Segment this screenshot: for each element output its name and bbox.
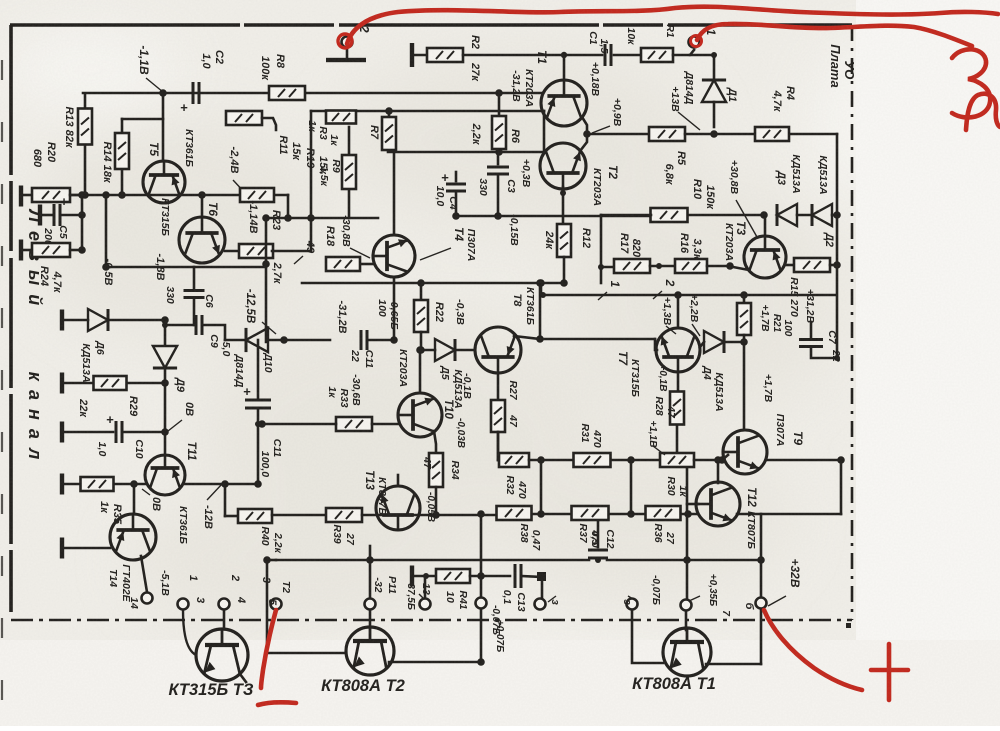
capacitor C9 bbox=[196, 315, 202, 335]
wire y515 a bbox=[272, 514, 326, 517]
wire bbox=[369, 339, 394, 342]
wire T5 collector bbox=[162, 93, 165, 161]
wire bbox=[267, 559, 276, 562]
wire T1 base from C1 row bbox=[563, 55, 566, 80]
capacitor C3 bbox=[487, 167, 509, 174]
wire bbox=[457, 349, 475, 352]
pointer line bbox=[146, 78, 163, 92]
wire R2 row bbox=[414, 54, 428, 57]
wire x687 lower bbox=[686, 514, 689, 560]
pointer line bbox=[628, 596, 638, 602]
wire bbox=[497, 152, 500, 164]
resistor R31 bbox=[574, 453, 611, 467]
junction bbox=[81, 191, 89, 199]
wire bbox=[743, 335, 746, 342]
wire elbow T7 base bbox=[655, 339, 657, 350]
resistor R20 bbox=[32, 188, 70, 202]
wire bbox=[810, 322, 813, 339]
wire bbox=[127, 382, 165, 385]
transistor T7 bbox=[656, 328, 700, 372]
junction bbox=[416, 346, 424, 354]
ground C10 bbox=[60, 422, 64, 443]
junction bbox=[726, 262, 734, 270]
junction bbox=[837, 456, 845, 464]
resistor R11 bbox=[226, 111, 262, 125]
wire bbox=[70, 249, 82, 252]
pointer line bbox=[653, 446, 665, 455]
transistor T9 bbox=[723, 430, 767, 474]
wire R11 right bend bbox=[262, 118, 276, 130]
wire C13 to node bbox=[522, 576, 542, 577]
transistor T12 bbox=[696, 482, 740, 526]
ground R41 row bbox=[410, 566, 414, 587]
wire bbox=[562, 187, 565, 224]
wire x687 to terminal bbox=[686, 560, 689, 599]
wire bbox=[455, 191, 458, 216]
resistor R27 bbox=[491, 400, 505, 432]
capacitor C6 bbox=[184, 291, 205, 298]
resistor R6 bbox=[492, 116, 506, 149]
junction bbox=[495, 89, 503, 97]
resistor R33 bbox=[336, 417, 372, 431]
terminal 13 bbox=[420, 599, 431, 610]
wire bbox=[497, 432, 500, 460]
wire to T9 collector bbox=[743, 342, 746, 428]
wire R33 row - left stub bbox=[336, 423, 372, 426]
wire T3 base bbox=[764, 215, 767, 236]
transistor T11 bbox=[145, 455, 185, 495]
wire to R40 bbox=[224, 484, 227, 516]
diode D6 bbox=[88, 309, 108, 331]
junction bbox=[740, 291, 748, 299]
wire y152 bbox=[388, 151, 545, 154]
junction bbox=[417, 279, 425, 287]
wire bbox=[121, 169, 124, 196]
ground D6 bbox=[60, 310, 64, 331]
junction bbox=[833, 261, 841, 269]
wire bbox=[257, 408, 260, 484]
resistor R30 bbox=[660, 453, 694, 467]
junction bbox=[161, 379, 169, 387]
junction bbox=[262, 214, 270, 222]
pointer line bbox=[168, 420, 182, 431]
terminal 3 left bbox=[535, 599, 546, 610]
wire R7 top bbox=[388, 111, 391, 117]
wire T13 collector stub bbox=[397, 475, 400, 486]
T3 emitter stub bbox=[240, 674, 246, 682]
resistor R7 bbox=[382, 117, 396, 150]
junction bbox=[684, 510, 692, 518]
red ring terminal 2 bbox=[338, 34, 352, 48]
ground R29 bbox=[60, 373, 64, 394]
ground C5 bbox=[38, 205, 42, 226]
wire T12 base stub bbox=[687, 503, 698, 506]
junction bbox=[102, 263, 110, 271]
wire bbox=[836, 134, 839, 358]
wire y134 R5 row bbox=[587, 133, 649, 136]
wire D1 to rail bbox=[713, 102, 716, 127]
junction bbox=[627, 510, 635, 518]
resistor R8 bbox=[269, 86, 305, 100]
terminal 6 +32V bbox=[756, 598, 767, 609]
wire bbox=[193, 267, 196, 288]
junction square bbox=[537, 572, 546, 581]
junction bbox=[540, 292, 546, 298]
wire bbox=[124, 431, 165, 434]
resistor R37 bbox=[572, 506, 609, 520]
wire y111 bbox=[311, 110, 544, 113]
wire bbox=[597, 521, 600, 547]
T2 emitter wire bbox=[389, 662, 481, 664]
diode D9 bbox=[153, 346, 177, 368]
junction bbox=[221, 480, 229, 488]
pointer line bbox=[768, 596, 786, 606]
resistor R3 bbox=[326, 111, 356, 124]
capacitor C12 bbox=[588, 550, 608, 558]
wire bbox=[470, 575, 510, 578]
wire bbox=[121, 119, 124, 133]
red Zp letter p bbox=[966, 94, 1000, 130]
resistor R5 bbox=[649, 127, 685, 141]
wire bbox=[185, 483, 258, 486]
junction bbox=[102, 191, 110, 199]
wire T4 emitter bbox=[393, 277, 396, 340]
wire y295 long bbox=[543, 294, 836, 297]
junction bbox=[595, 557, 601, 563]
wire R28 bottom bbox=[676, 425, 679, 453]
capacitor C2 bbox=[180, 82, 199, 115]
wire R17 row bbox=[600, 266, 614, 269]
junction bbox=[627, 456, 635, 464]
wire to D9 bbox=[164, 320, 167, 344]
resistor R22 bbox=[414, 300, 428, 332]
transistor T10 bbox=[398, 393, 442, 437]
junction bbox=[78, 211, 86, 219]
wire bbox=[64, 431, 113, 434]
junction bbox=[159, 89, 167, 97]
wire T3 collector bbox=[223, 610, 226, 629]
resistor R35 bbox=[81, 477, 114, 491]
scan edge marks bbox=[1, 60, 3, 710]
diode D2 bbox=[812, 204, 832, 226]
wire bbox=[685, 133, 755, 136]
wire bbox=[23, 249, 32, 252]
wire T6 to R23 bbox=[225, 250, 239, 253]
T8 collector wire bbox=[514, 336, 540, 339]
wire x541 mid bbox=[540, 460, 543, 514]
red dash bottom left bbox=[258, 702, 296, 705]
resistor R39 bbox=[326, 508, 362, 522]
resistor R29 bbox=[94, 376, 127, 390]
junction bbox=[710, 130, 718, 138]
input ground bar bbox=[326, 58, 366, 62]
transistor T14 bbox=[110, 514, 156, 560]
junction bbox=[423, 573, 429, 579]
wire to terminal 3a bbox=[541, 580, 544, 598]
wire R1 to terminal 1 bbox=[673, 50, 694, 55]
wire to D1 top bbox=[690, 54, 714, 57]
wire to D5 bbox=[421, 349, 435, 352]
wire y283 bbox=[302, 282, 564, 285]
transistor T1 KT808A bbox=[663, 628, 711, 676]
wire bbox=[743, 295, 746, 303]
resistor R24 bbox=[32, 243, 70, 257]
junction bbox=[477, 510, 485, 518]
wire x761 bbox=[760, 514, 763, 560]
terminal 1-3 bbox=[178, 599, 189, 610]
wire R22 top bbox=[420, 283, 423, 300]
wire x311 vertical bbox=[310, 111, 313, 251]
resistor R14 bbox=[115, 133, 129, 169]
wire y515 d bbox=[609, 513, 646, 516]
junction bbox=[161, 316, 169, 324]
wire bbox=[543, 111, 546, 150]
wire bbox=[726, 341, 744, 344]
wire y515 b bbox=[362, 514, 497, 517]
wire R10 left bbox=[601, 214, 651, 217]
wire R6 top bbox=[498, 93, 501, 116]
wire x370 upper bbox=[369, 546, 372, 560]
pointer line bbox=[142, 489, 150, 495]
junction bbox=[560, 279, 568, 287]
wire x262 to R33 bbox=[262, 423, 336, 426]
junction bbox=[452, 212, 460, 220]
T1 emitter wire bbox=[582, 117, 587, 134]
pointer line bbox=[548, 596, 556, 602]
wire terminal 13 lead bbox=[424, 576, 427, 598]
wire bbox=[165, 324, 194, 327]
wire D2 to rail bbox=[832, 214, 837, 217]
junction bbox=[198, 191, 206, 199]
capacitor C5 bbox=[54, 194, 68, 226]
wire T10 collector bbox=[419, 352, 422, 393]
junction bbox=[162, 322, 168, 328]
wire R10 right bbox=[688, 214, 764, 217]
junction bbox=[561, 52, 567, 58]
junction bbox=[78, 191, 86, 199]
transistor T3 KT203A bbox=[744, 236, 786, 278]
wire bbox=[122, 118, 163, 121]
wire T9 emitter row bbox=[766, 459, 841, 462]
resistor R36 bbox=[646, 506, 681, 520]
terminal collector T1 bbox=[681, 600, 692, 611]
junction bbox=[495, 148, 503, 156]
wire T4 collector bbox=[393, 152, 396, 235]
T2 base wire bbox=[267, 652, 346, 655]
scan noise overlay bbox=[0, 0, 1, 1]
junction bbox=[284, 214, 292, 222]
wire x481 long bbox=[480, 514, 483, 662]
wire y515 e bbox=[681, 513, 697, 516]
pointer line bbox=[592, 126, 610, 133]
wire R9 top bbox=[348, 127, 351, 155]
wire y195 row bbox=[64, 194, 241, 197]
transistor T4 bbox=[373, 235, 415, 277]
wire y560 a bbox=[276, 559, 589, 562]
junction T9 base bbox=[718, 456, 726, 464]
junction bbox=[477, 572, 485, 580]
T14 emitter diagonal to terminal bbox=[141, 556, 147, 592]
wire T7 collector bbox=[677, 295, 680, 328]
resistor R21 bbox=[737, 303, 751, 335]
pointer line bbox=[262, 322, 276, 334]
diode D1 D814D bbox=[702, 80, 726, 102]
wire y560 b bbox=[607, 559, 761, 562]
junction bbox=[537, 510, 545, 518]
resistor R1 bbox=[641, 48, 673, 62]
junction bbox=[537, 456, 545, 464]
wire D10 row bbox=[225, 339, 244, 342]
wire y460 c bbox=[611, 459, 660, 462]
ground R20 bbox=[19, 186, 23, 207]
red stroke top long bbox=[347, 7, 998, 44]
wire T8 emitter bbox=[497, 373, 500, 400]
T1 emitter wire bbox=[706, 663, 761, 666]
junction bbox=[674, 291, 682, 299]
ground bbox=[60, 538, 64, 559]
transistor T1 bbox=[541, 80, 587, 126]
scan shading blotches bbox=[0, 0, 1, 1]
junction bbox=[714, 456, 722, 464]
wire bbox=[790, 133, 837, 136]
wire T9 base link bbox=[722, 455, 728, 460]
wire bbox=[597, 558, 600, 560]
wire bbox=[193, 298, 196, 325]
junction bbox=[740, 338, 748, 346]
wire R33 to T10 bbox=[372, 423, 398, 426]
wire bbox=[414, 575, 435, 578]
wire bbox=[455, 172, 458, 181]
wire R9 bottom bbox=[348, 190, 351, 218]
wire bbox=[64, 483, 80, 486]
junction bbox=[537, 279, 545, 287]
transistor T3 KT315B bbox=[196, 629, 248, 681]
wire bbox=[84, 95, 87, 109]
wire bbox=[497, 174, 500, 216]
pointer line bbox=[678, 112, 700, 130]
wire R15 left bbox=[786, 264, 794, 267]
resistor R23 bbox=[239, 244, 273, 258]
junction bbox=[477, 658, 485, 666]
resistor R28 bbox=[670, 392, 684, 425]
diode D4 row bbox=[700, 342, 704, 347]
terminal P11 bbox=[365, 599, 376, 610]
wire bbox=[42, 214, 52, 217]
wire x601 link bbox=[600, 215, 603, 267]
wire y515 c bbox=[532, 513, 572, 516]
red stroke top second bbox=[697, 24, 972, 46]
junction bbox=[711, 52, 717, 58]
wire x267 bbox=[266, 560, 269, 653]
terminal 3 right bbox=[627, 599, 638, 610]
wire bbox=[114, 483, 145, 486]
junction bbox=[583, 130, 591, 138]
wire bbox=[830, 264, 837, 267]
wire bbox=[64, 319, 88, 322]
wire T8 to T7 bbox=[540, 338, 655, 341]
junction bbox=[683, 556, 691, 564]
junction bbox=[598, 264, 604, 270]
junction bbox=[760, 211, 768, 219]
wire bbox=[64, 547, 110, 550]
wire bbox=[272, 250, 311, 253]
T1 base wire bbox=[632, 610, 663, 663]
pointer line bbox=[294, 256, 303, 264]
wire bbox=[70, 194, 85, 197]
pointer line bbox=[692, 324, 700, 336]
wire bbox=[463, 54, 602, 57]
pointer line bbox=[420, 248, 451, 260]
resistor R13 bbox=[78, 109, 92, 145]
capacitor C4 bbox=[441, 170, 466, 191]
wire x540 bbox=[539, 283, 542, 339]
wire bbox=[563, 257, 566, 283]
board frame bottom edge bbox=[11, 619, 852, 622]
wire y460 a bbox=[498, 459, 500, 462]
terminal 1 bbox=[689, 37, 700, 48]
red plus sign bbox=[871, 644, 908, 700]
wire bbox=[257, 340, 260, 398]
capacitor C10 bbox=[106, 412, 122, 443]
wire T2 leg to R5 node bbox=[580, 134, 587, 151]
wire T7 emitter bbox=[677, 372, 680, 391]
junction bbox=[757, 556, 765, 564]
wire bbox=[64, 382, 94, 385]
junction bbox=[536, 279, 544, 287]
junction bbox=[536, 335, 544, 343]
transistor T2 KT808A bbox=[346, 627, 394, 675]
transistor T5 bbox=[143, 161, 185, 203]
wire x370 to terminal bbox=[369, 560, 372, 598]
wire C5 to node bbox=[61, 214, 82, 217]
junction bbox=[833, 211, 841, 219]
wire y267 bbox=[106, 266, 266, 269]
wire to T14 base bbox=[133, 484, 136, 514]
pointer line bbox=[419, 594, 424, 599]
wire R40 feed bbox=[225, 515, 238, 518]
wire x601 stub bbox=[600, 267, 603, 283]
junction bbox=[385, 107, 393, 115]
T10 emitter wire bbox=[434, 431, 436, 453]
pointer line bbox=[207, 484, 222, 500]
junction bbox=[161, 428, 169, 436]
terminal 3-5 bbox=[271, 599, 282, 610]
resistor R16 bbox=[675, 259, 707, 273]
junction bbox=[258, 420, 266, 428]
wire left node vertical bbox=[81, 195, 84, 250]
resistor R38 bbox=[497, 506, 532, 520]
terminal output a bbox=[142, 593, 153, 604]
resistor R18 bbox=[326, 257, 360, 271]
junction bbox=[255, 421, 261, 427]
wire bbox=[23, 194, 32, 197]
wire bbox=[650, 265, 675, 268]
junction bbox=[280, 336, 288, 344]
wire D3-D2 bbox=[797, 214, 812, 217]
wire x687 upper bbox=[686, 468, 689, 514]
junction bbox=[254, 480, 262, 488]
ground R35 bbox=[60, 474, 64, 495]
wire D9 to T11 bbox=[164, 370, 167, 455]
junction bbox=[118, 191, 126, 199]
diode D5 bbox=[435, 339, 455, 361]
resistor R32b bbox=[499, 453, 529, 467]
wire emitter up bbox=[760, 609, 763, 664]
wire T6 collector stub bbox=[201, 195, 204, 217]
resistor R10 bbox=[651, 208, 688, 222]
wire x761 to terminal bbox=[760, 560, 763, 597]
terminal 2-4 bbox=[219, 599, 230, 610]
